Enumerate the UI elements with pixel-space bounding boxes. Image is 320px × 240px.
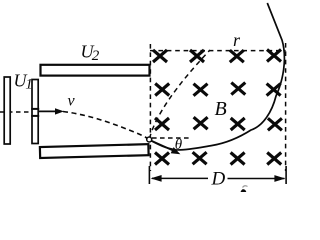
field cross row 2 bbox=[155, 83, 280, 96]
wire: dashed beam line entering accelerator bbox=[0, 111, 32, 113]
node: entry point circle bbox=[147, 137, 152, 142]
capacitor plate (bottom deflecting plate) bbox=[40, 144, 149, 158]
dimension D: left arrow bbox=[152, 177, 208, 179]
dimension D: right arrow bbox=[228, 178, 285, 180]
capacitor plate (right accelerating plate) bbox=[32, 80, 38, 144]
node: cropped caption mark bbox=[241, 189, 247, 192]
wire: velocity arrow v bbox=[39, 110, 58, 112]
node: field region left boundary (dashed) bbox=[149, 44, 151, 171]
dimension D: left tick bbox=[148, 166, 150, 184]
capacitor plate (left accelerating plate) bbox=[4, 77, 10, 144]
svg-text:D: D bbox=[211, 169, 226, 190]
wire: dashed parabolic path between plates bbox=[63, 112, 147, 139]
node: faint caption wisp bbox=[243, 186, 248, 188]
svg-text:θ: θ bbox=[175, 137, 183, 153]
field cross row 3 bbox=[155, 117, 282, 130]
dimension D: right tick bbox=[285, 166, 287, 184]
node: beam hole bar upper bbox=[31, 108, 39, 110]
capacitor plate (top deflecting plate U2) bbox=[41, 65, 150, 76]
svg-text:v: v bbox=[68, 93, 76, 110]
node: field region right boundary (dashed) bbox=[285, 43, 287, 171]
svg-text:1: 1 bbox=[25, 77, 33, 93]
wire: solid trajectory arc in field bbox=[149, 3, 284, 150]
node: beam hole bar lower bbox=[31, 115, 39, 117]
wire: dashed horizontal reference at entry bbox=[152, 137, 190, 139]
svg-text:2: 2 bbox=[92, 48, 100, 64]
field cross row 4 bbox=[155, 152, 281, 164]
node: field region top boundary (dashed) bbox=[150, 50, 286, 52]
wire: dashed radius line r bbox=[150, 50, 211, 139]
wire: velocity arrow at entry bbox=[152, 141, 174, 151]
field cross row 1 bbox=[153, 50, 281, 63]
svg-text:r: r bbox=[233, 30, 241, 50]
svg-text:B: B bbox=[215, 98, 227, 120]
